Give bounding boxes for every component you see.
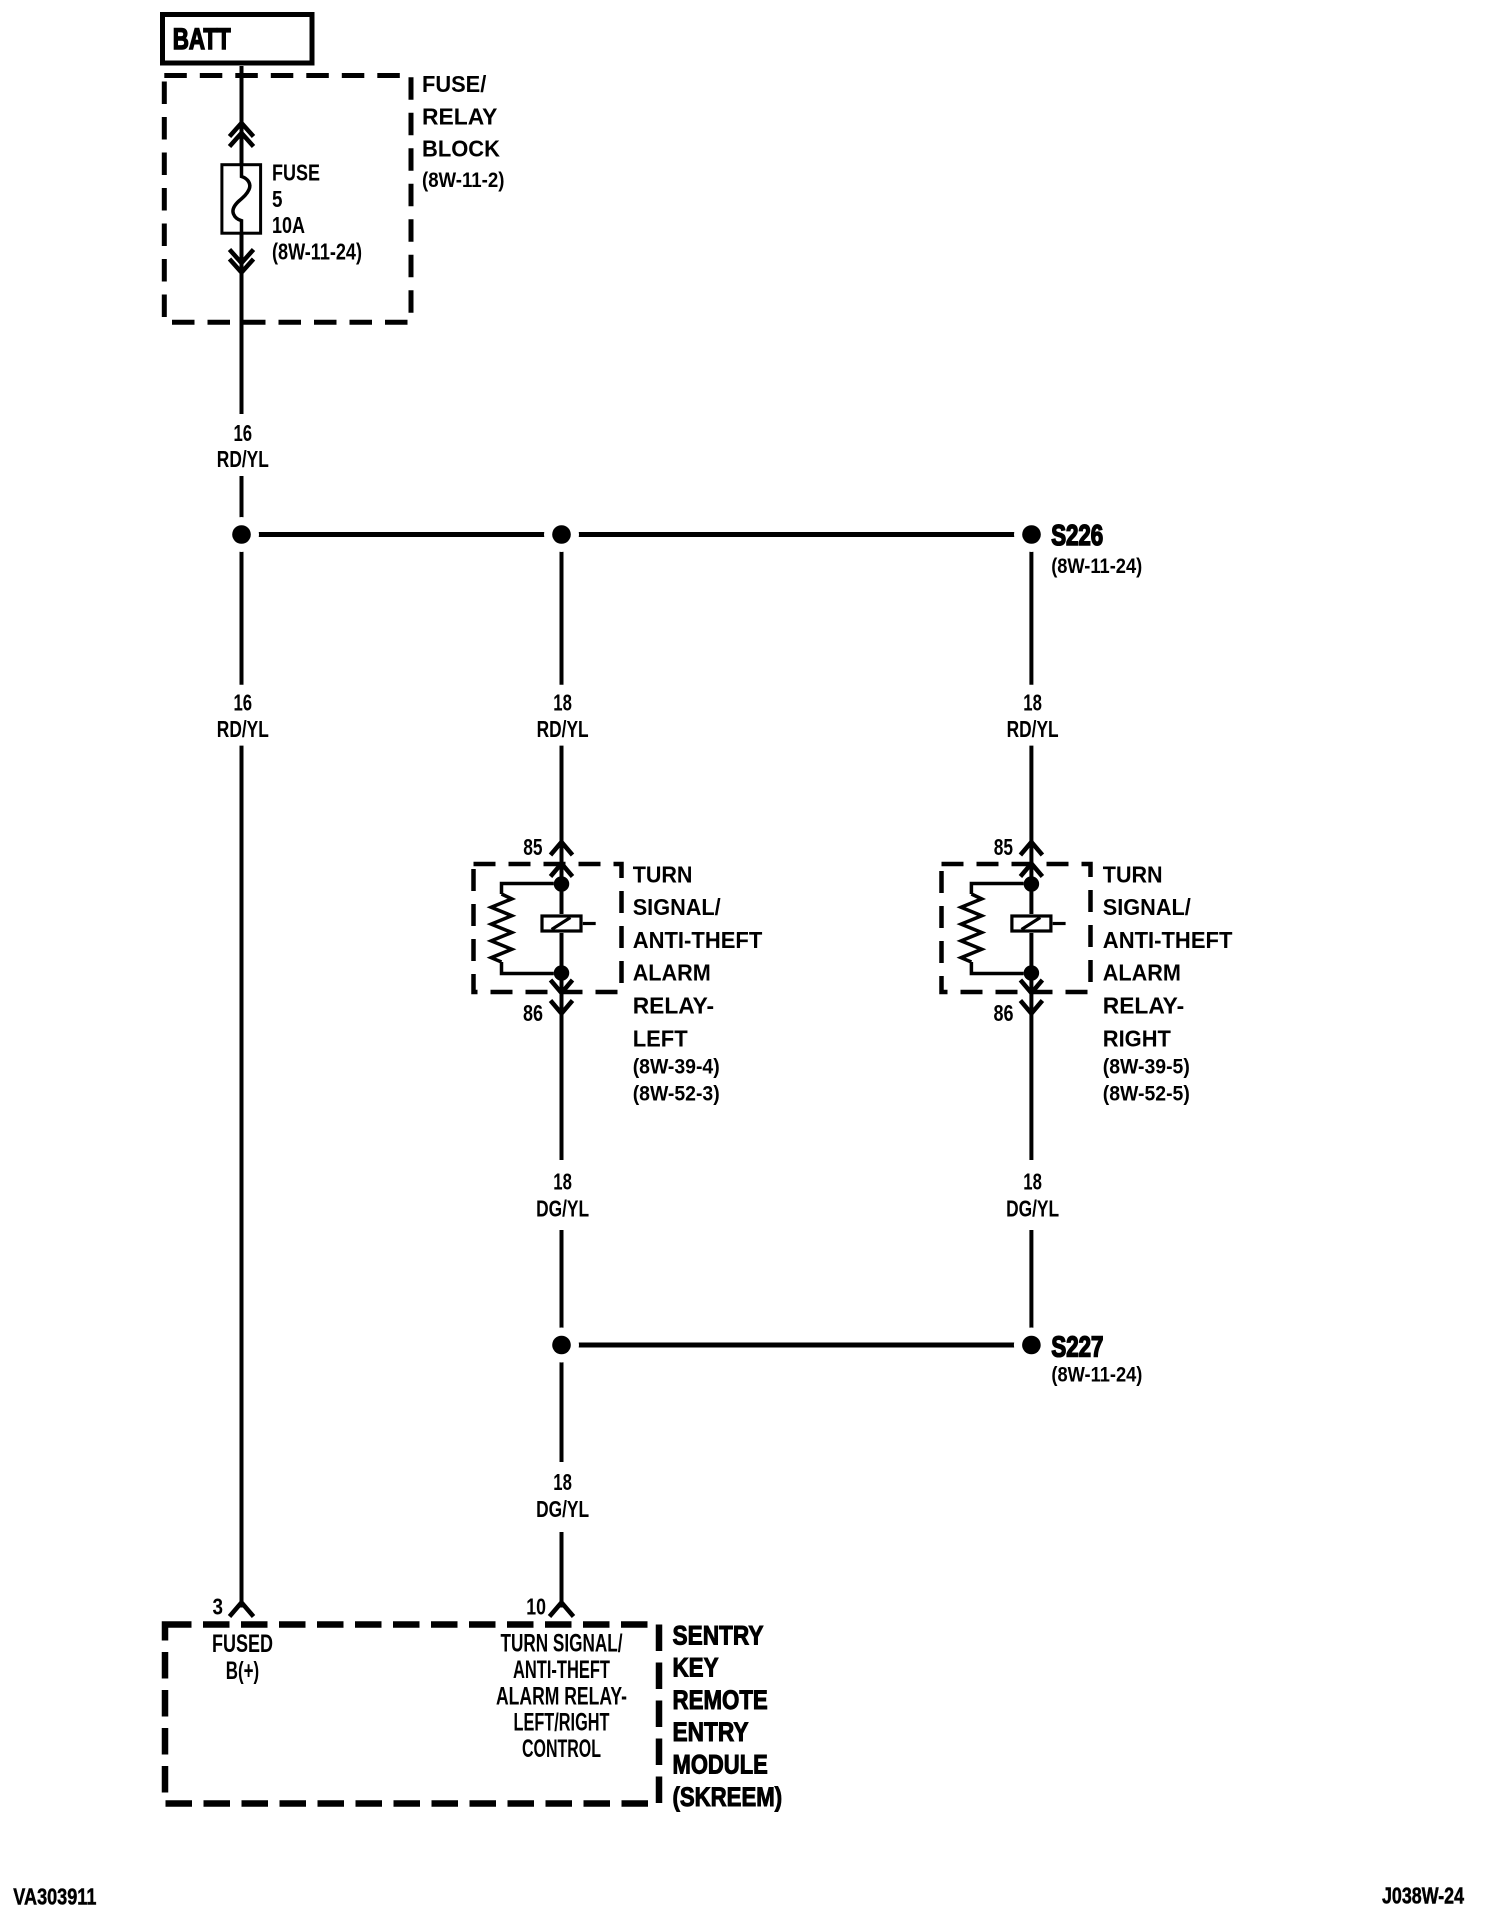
svg-text:18: 18 <box>553 1169 572 1195</box>
SKREEM module label <box>673 1620 783 1812</box>
svg-text:S227: S227 <box>1051 1332 1103 1364</box>
svg-text:ALARM: ALARM <box>1103 960 1181 986</box>
relay left: connector chevrons pin 86 <box>551 980 573 1014</box>
svg-text:FUSED: FUSED <box>212 1630 273 1658</box>
wire label 16 RD/YL (lower left) <box>217 690 269 742</box>
svg-text:TURN: TURN <box>633 861 693 887</box>
svg-text:TURN: TURN <box>1103 861 1163 887</box>
svg-text:DG/YL: DG/YL <box>536 1196 589 1222</box>
svg-text:MODULE: MODULE <box>673 1750 768 1780</box>
svg-text:18: 18 <box>1023 1169 1042 1195</box>
svg-text:ENTRY: ENTRY <box>673 1717 749 1747</box>
splice S227 label <box>1051 1332 1142 1387</box>
relay right: coil box <box>1012 916 1066 931</box>
svg-text:(8W-39-5): (8W-39-5) <box>1103 1056 1190 1079</box>
svg-text:(8W-52-3): (8W-52-3) <box>633 1082 720 1105</box>
svg-text:16: 16 <box>234 690 253 716</box>
wire 18 RD/YL right branch <box>1029 535 1033 1346</box>
inline connector chevrons above fuse <box>230 123 254 147</box>
svg-text:SIGNAL/: SIGNAL/ <box>633 894 722 920</box>
svg-text:(8W-11-2): (8W-11-2) <box>422 169 504 192</box>
wire label 18 DG/YL lower <box>536 1469 589 1522</box>
wire 18 RD/YL middle branch <box>560 535 564 1608</box>
splice S227 horizontal wire <box>562 1343 1032 1348</box>
svg-text:86: 86 <box>994 1000 1014 1026</box>
svg-text:ANTI-THEFT: ANTI-THEFT <box>633 927 763 953</box>
svg-text:RELAY-: RELAY- <box>1103 993 1184 1019</box>
svg-text:RIGHT: RIGHT <box>1103 1025 1171 1051</box>
svg-text:DG/YL: DG/YL <box>1006 1196 1059 1222</box>
svg-text:BATT: BATT <box>173 23 231 56</box>
svg-text:(8W-11-24): (8W-11-24) <box>1051 554 1142 578</box>
svg-text:LEFT/RIGHT: LEFT/RIGHT <box>514 1709 610 1737</box>
wire battery feed (upper segments) <box>240 66 244 1608</box>
fuse/relay block dashed box <box>164 76 411 323</box>
pin 3 connector chevron <box>230 1603 254 1617</box>
svg-text:CONTROL: CONTROL <box>522 1735 601 1763</box>
svg-text:ALARM RELAY-: ALARM RELAY- <box>496 1682 627 1710</box>
svg-text:(SKREEM): (SKREEM) <box>673 1782 783 1812</box>
white rings at splice dots <box>224 517 1049 1363</box>
relay left: coil resistor branch <box>491 884 554 974</box>
svg-text:RD/YL: RD/YL <box>537 716 589 742</box>
svg-text:18: 18 <box>553 690 572 716</box>
svg-text:(8W-39-4): (8W-39-4) <box>633 1056 720 1079</box>
svg-text:SIGNAL/: SIGNAL/ <box>1103 894 1192 920</box>
svg-text:16: 16 <box>234 420 253 446</box>
svg-text:(8W-11-24): (8W-11-24) <box>1051 1363 1142 1387</box>
relay left: bottom junction dot <box>554 965 570 981</box>
svg-text:RD/YL: RD/YL <box>217 446 269 472</box>
svg-text:S226: S226 <box>1051 520 1103 552</box>
svg-text:RELAY-: RELAY- <box>633 993 714 1019</box>
svg-text:J038W-24: J038W-24 <box>1382 1883 1464 1909</box>
svg-text:SENTRY: SENTRY <box>673 1620 764 1650</box>
pin 10 function label <box>496 1630 627 1764</box>
svg-text:ANTI-THEFT: ANTI-THEFT <box>513 1656 610 1684</box>
splice junction dots <box>232 525 1041 1354</box>
relay left: coil box <box>542 916 596 931</box>
svg-text:18: 18 <box>553 1469 572 1495</box>
wire label 18 DG/YL middle <box>536 1169 589 1222</box>
splice S226 label <box>1051 520 1142 578</box>
svg-text:B(+): B(+) <box>226 1657 259 1685</box>
svg-text:BLOCK: BLOCK <box>422 135 500 161</box>
relay right: label <box>1103 861 1233 1051</box>
wire label 18 DG/YL right <box>1006 1169 1059 1222</box>
svg-text:ALARM: ALARM <box>633 960 711 986</box>
BATT box <box>163 15 313 64</box>
splice S226 horizontal wire <box>242 532 1032 537</box>
svg-text:10: 10 <box>526 1593 546 1619</box>
relay right: top junction dot <box>1024 876 1040 892</box>
svg-text:RD/YL: RD/YL <box>1007 716 1059 742</box>
svg-text:DG/YL: DG/YL <box>536 1496 589 1522</box>
relay right: connector chevrons pin 85 <box>1020 842 1042 877</box>
pin 3 function label FUSED B(+) <box>212 1630 273 1685</box>
svg-text:KEY: KEY <box>673 1653 719 1683</box>
SKREEM module dashed box <box>165 1625 659 1804</box>
svg-text:LEFT: LEFT <box>633 1025 688 1051</box>
relay right: coil resistor branch <box>961 884 1024 974</box>
label FUSE/RELAY BLOCK <box>422 71 504 192</box>
svg-text:5: 5 <box>272 186 283 212</box>
svg-text:FUSE/: FUSE/ <box>422 71 487 97</box>
relay right: connector chevrons pin 86 <box>1020 980 1042 1014</box>
pin 10 connector chevron <box>550 1603 574 1617</box>
svg-text:(8W-11-24): (8W-11-24) <box>272 238 362 264</box>
svg-text:18: 18 <box>1023 690 1042 716</box>
svg-text:FUSE: FUSE <box>272 160 320 186</box>
svg-text:REMOTE: REMOTE <box>673 1685 768 1715</box>
svg-text:3: 3 <box>213 1593 224 1619</box>
svg-text:VA303911: VA303911 <box>13 1884 96 1910</box>
svg-text:10A: 10A <box>272 212 305 238</box>
connector chevrons below fuse <box>230 250 254 273</box>
relay left: top junction dot <box>554 876 570 892</box>
svg-text:TURN SIGNAL/: TURN SIGNAL/ <box>501 1630 623 1658</box>
svg-text:RELAY: RELAY <box>422 103 497 129</box>
relay right: dashed box <box>942 864 1091 992</box>
relay left: label <box>633 861 763 1051</box>
svg-text:85: 85 <box>994 834 1013 860</box>
svg-text:86: 86 <box>523 1000 543 1026</box>
relay left: connector chevrons pin 85 <box>551 842 573 877</box>
svg-text:ANTI-THEFT: ANTI-THEFT <box>1103 927 1233 953</box>
svg-text:RD/YL: RD/YL <box>217 716 269 742</box>
svg-text:85: 85 <box>523 834 542 860</box>
relay left: dashed box <box>474 864 622 992</box>
relay right: bottom junction dot <box>1024 965 1040 981</box>
fuse F5 <box>222 160 362 265</box>
wire label 16 RD/YL (upper) <box>217 420 269 472</box>
svg-text:(8W-52-5): (8W-52-5) <box>1103 1082 1190 1105</box>
